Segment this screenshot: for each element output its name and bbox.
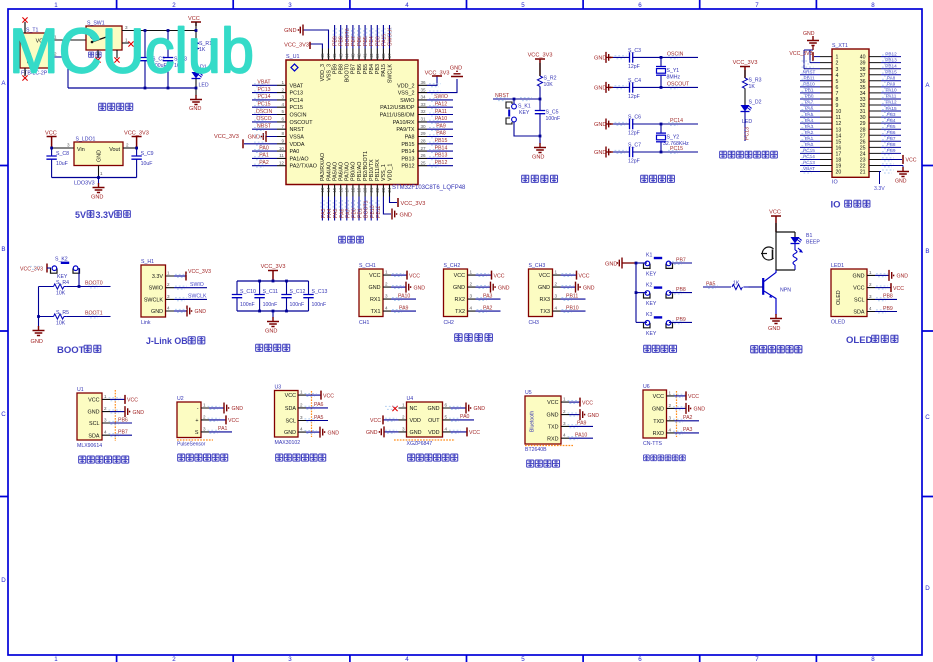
svg-text:VCC: VCC <box>579 273 590 279</box>
svg-text:PB9: PB9 <box>333 36 339 46</box>
svg-text:B: B <box>925 248 929 255</box>
capacitor S_C10 <box>232 281 256 311</box>
svg-text:S_C5: S_C5 <box>546 110 559 116</box>
svg-text:GND: GND <box>453 285 465 291</box>
right pin stubs <box>869 57 881 172</box>
svg-text:VDD_1: VDD_1 <box>387 164 393 181</box>
svg-text:28: 28 <box>421 139 427 144</box>
svg-text:PB7: PB7 <box>351 36 357 46</box>
left net labels <box>256 80 273 166</box>
svg-text:4: 4 <box>563 433 566 438</box>
svg-text:32: 32 <box>421 109 427 114</box>
svg-text:12: 12 <box>836 121 842 127</box>
svg-text:PB13: PB13 <box>435 153 448 159</box>
LED D1 <box>192 72 203 79</box>
svg-text:BEEP: BEEP <box>806 240 820 246</box>
svg-text:SWCLK: SWCLK <box>387 64 393 84</box>
svg-text:41: 41 <box>363 53 368 59</box>
wire from K2 to BOOT0 node <box>78 268 80 287</box>
svg-text:PA15: PA15 <box>381 64 387 77</box>
title 按键电路 <box>644 345 677 352</box>
svg-text:PA11: PA11 <box>886 94 897 99</box>
svg-text:VCC: VCC <box>88 398 99 404</box>
pin1 VCC_3V3 <box>174 275 186 277</box>
title 复位电路 <box>522 175 558 182</box>
svg-text:43: 43 <box>351 53 356 59</box>
svg-text:GND: GND <box>897 274 909 280</box>
svg-text:11: 11 <box>279 153 284 158</box>
svg-text:VCC: VCC <box>369 273 380 279</box>
wire T1 pin2 down to rail <box>50 57 68 88</box>
svg-text:GND: GND <box>594 122 606 128</box>
svg-text:VCC: VCC <box>409 273 420 279</box>
svg-text:4: 4 <box>405 656 409 662</box>
svg-text:NC: NC <box>410 406 418 412</box>
svg-text:GND: GND <box>594 86 606 92</box>
svg-text:10K: 10K <box>56 321 66 327</box>
row PC15 <box>594 143 698 165</box>
capacitor S_C13 <box>303 281 327 311</box>
svg-text:PulseSensor: PulseSensor <box>177 442 206 448</box>
svg-text:17: 17 <box>344 187 349 193</box>
capacitor S_C5 <box>535 111 545 114</box>
svg-text:15: 15 <box>332 187 337 193</box>
svg-text:GND: GND <box>428 406 440 412</box>
svg-text:B: B <box>1 246 5 253</box>
svg-text:GND: GND <box>133 410 145 416</box>
svg-text:-: - <box>197 406 199 412</box>
row PC14 <box>594 115 698 137</box>
svg-text:48: 48 <box>320 53 325 59</box>
connector S_CH3 <box>529 263 595 326</box>
svg-text:Bluetooth: Bluetooth <box>530 411 536 432</box>
connector S_CH2 <box>444 263 510 326</box>
svg-text:OSCIN: OSCIN <box>290 113 307 119</box>
no-ERC mark bottom of T1 <box>22 75 27 80</box>
svg-text:PA3: PA3 <box>683 427 693 433</box>
left pins <box>399 408 407 432</box>
VCC_3V3 at pin1 <box>812 52 814 61</box>
right wires <box>427 76 457 166</box>
svg-text:25: 25 <box>860 145 866 151</box>
svg-text:16: 16 <box>836 145 842 151</box>
svg-text:GND: GND <box>366 430 378 436</box>
svg-text:BT2640B: BT2640B <box>525 447 547 453</box>
svg-text:GND: GND <box>694 407 706 413</box>
pin2 VCC <box>383 419 399 421</box>
svg-text:S_C8: S_C8 <box>56 151 69 157</box>
svg-text:PA12: PA12 <box>885 100 897 105</box>
module U5 BT2640B <box>525 396 561 444</box>
svg-text:B1: B1 <box>806 233 812 239</box>
svg-text:7: 7 <box>755 656 759 662</box>
svg-text:VBAT: VBAT <box>290 83 304 89</box>
svg-text:KEY: KEY <box>519 110 530 116</box>
svg-text:PB12: PB12 <box>401 164 414 170</box>
svg-text:46: 46 <box>332 53 337 59</box>
NPN transistor Q1 <box>763 270 776 315</box>
svg-text:4: 4 <box>104 430 107 435</box>
svg-text:PA9: PA9 <box>436 123 446 129</box>
svg-text:KEY: KEY <box>646 331 657 337</box>
svg-text:PA2: PA2 <box>683 415 693 421</box>
pin3 PA1 <box>209 431 232 433</box>
switch S_SW1 <box>86 21 122 51</box>
svg-text:U2: U2 <box>177 396 184 402</box>
svg-text:K1: K1 <box>646 253 652 259</box>
title 血氧检测模块 <box>276 454 326 461</box>
connector S_XT1 <box>832 49 869 177</box>
svg-text:GND: GND <box>91 195 103 201</box>
svg-text:S_C12: S_C12 <box>290 289 306 295</box>
svg-text:SDA: SDA <box>88 433 99 439</box>
svg-text:PA1/AO: PA1/AO <box>290 156 309 162</box>
left vertical wire <box>38 287 40 317</box>
svg-text:4: 4 <box>445 426 448 431</box>
svg-text:12pF: 12pF <box>628 64 640 70</box>
svg-text:GND: GND <box>151 309 163 315</box>
orange marker <box>114 390 116 441</box>
svg-text:S_C10: S_C10 <box>240 289 256 295</box>
svg-text:2: 2 <box>172 656 176 662</box>
bottom rail <box>52 177 137 179</box>
svg-text:VCC: VCC <box>323 393 334 399</box>
svg-text:5: 5 <box>521 656 525 662</box>
VCC at pin23 <box>902 155 904 164</box>
svg-text:VDD_2: VDD_2 <box>397 83 414 89</box>
svg-text:GND: GND <box>532 155 544 161</box>
title 声光报警电路 <box>751 346 802 353</box>
svg-text:3: 3 <box>669 415 672 420</box>
row OSCIN <box>594 48 698 70</box>
svg-text:2: 2 <box>836 61 839 67</box>
svg-text:SWIO: SWIO <box>400 98 414 104</box>
LED S_D2 <box>741 105 752 112</box>
svg-text:SWCLK: SWCLK <box>388 27 394 46</box>
button K1 <box>636 262 647 264</box>
svg-text:PB1/AO: PB1/AO <box>357 162 363 181</box>
svg-text:1K: 1K <box>749 84 756 90</box>
svg-text:PB1: PB1 <box>805 88 814 93</box>
svg-text:PB5: PB5 <box>363 64 369 74</box>
svg-text:3.3V: 3.3V <box>152 274 163 280</box>
SW1 bottom stubs with x <box>98 50 117 58</box>
svg-text:PC13: PC13 <box>290 91 304 97</box>
svg-text:3: 3 <box>281 95 284 100</box>
pin3 SWCLK <box>174 298 207 300</box>
bottom net labels rotated red <box>321 200 382 218</box>
svg-text:31: 31 <box>860 109 866 115</box>
svg-text:PA5/AO: PA5/AO <box>332 162 338 181</box>
bottom bus <box>237 310 309 312</box>
pin1 VCC <box>569 401 580 403</box>
svg-text:100nF: 100nF <box>263 302 278 308</box>
svg-text:VDD: VDD <box>428 430 439 436</box>
svg-text:100nF: 100nF <box>312 302 327 308</box>
svg-text:VCC_3V3: VCC_3V3 <box>528 53 553 59</box>
svg-text:PC15: PC15 <box>670 146 683 152</box>
svg-text:U5: U5 <box>525 390 532 396</box>
svg-text:5: 5 <box>281 109 284 114</box>
pin1 GND <box>875 274 889 276</box>
svg-text:4: 4 <box>300 427 303 432</box>
svg-text:PC14: PC14 <box>290 98 304 104</box>
svg-text:VCC_3V3: VCC_3V3 <box>425 71 450 77</box>
svg-text:VSS_3: VSS_3 <box>326 64 332 81</box>
svg-text:1: 1 <box>104 394 107 399</box>
svg-text:PB11: PB11 <box>566 293 578 299</box>
svg-text:PA5: PA5 <box>333 208 339 218</box>
svg-text:D: D <box>925 585 930 592</box>
svg-text:S_R5: S_R5 <box>56 310 69 316</box>
svg-text:PA11/USB/DM: PA11/USB/DM <box>380 113 415 119</box>
svg-text:GND: GND <box>232 406 244 412</box>
svg-text:GND: GND <box>284 430 296 436</box>
svg-text:PC13: PC13 <box>745 127 751 140</box>
svg-text:8MHz: 8MHz <box>667 75 681 81</box>
svg-text:PB8: PB8 <box>676 287 686 293</box>
erc compile marks <box>30 28 894 440</box>
svg-text:SCL: SCL <box>854 298 865 304</box>
svg-text:SWIO: SWIO <box>434 94 448 100</box>
pin4 GND <box>174 310 187 312</box>
left wires <box>244 85 277 165</box>
svg-text:GND: GND <box>588 413 600 419</box>
top pin stubs <box>322 49 389 61</box>
svg-text:GND: GND <box>652 407 664 413</box>
title IO拓展口 <box>831 200 870 211</box>
ground <box>190 95 202 105</box>
svg-text:TXD: TXD <box>653 419 664 425</box>
svg-text:7: 7 <box>755 2 759 9</box>
svg-text:U4: U4 <box>407 396 414 402</box>
svg-text:OUT: OUT <box>428 418 440 424</box>
svg-text:VCC: VCC <box>769 210 781 216</box>
VCC_3V3 at VDD_1 <box>397 198 399 207</box>
svg-text:14: 14 <box>326 187 331 193</box>
svg-text:BOOT0: BOOT0 <box>345 64 351 82</box>
pin2 VCC <box>875 287 891 289</box>
svg-text:GND: GND <box>189 106 201 112</box>
svg-text:7: 7 <box>281 124 284 129</box>
pin2 GND <box>110 411 125 413</box>
orange marker <box>311 391 313 437</box>
svg-text:GND: GND <box>328 430 340 436</box>
pin4 SDA <box>875 311 897 313</box>
title 5V转3.3V电路 <box>75 210 130 220</box>
svg-text:40: 40 <box>369 53 374 59</box>
svg-text:PB7: PB7 <box>676 258 686 264</box>
pin3 PB6 <box>110 422 132 424</box>
svg-text:PA0: PA0 <box>460 414 470 420</box>
svg-text:34: 34 <box>421 95 427 100</box>
svg-text:25: 25 <box>421 160 427 165</box>
svg-text:3: 3 <box>300 415 303 420</box>
svg-text:Vin: Vin <box>77 147 85 153</box>
crystal S_Y1 <box>656 57 680 87</box>
svg-text:TX1: TX1 <box>371 309 381 315</box>
svg-text:1: 1 <box>669 390 672 395</box>
svg-text:VCC_3V3: VCC_3V3 <box>789 51 812 57</box>
svg-text:C: C <box>1 411 6 418</box>
svg-text:OLED: OLED <box>831 320 845 326</box>
svg-text:GND: GND <box>498 285 510 291</box>
svg-text:S: S <box>195 430 199 436</box>
mosfet Q2 <box>761 247 776 270</box>
svg-text:PA10: PA10 <box>435 116 447 122</box>
svg-text:14: 14 <box>836 133 842 139</box>
svg-text:PA9: PA9 <box>577 421 587 427</box>
connector S_CH1 <box>359 263 425 326</box>
svg-text:PA10: PA10 <box>575 433 587 439</box>
svg-text:RX3: RX3 <box>540 297 551 303</box>
svg-text:4: 4 <box>470 306 473 311</box>
ground <box>272 311 274 318</box>
svg-text:PA7/AO: PA7/AO <box>345 162 351 181</box>
GND at pins2-3 <box>807 36 819 46</box>
svg-text:1: 1 <box>385 270 388 275</box>
connector S_H1 <box>141 265 166 317</box>
svg-text:2: 2 <box>563 409 566 414</box>
BOOT1 row: resistor S_R5 <box>39 316 111 318</box>
svg-text:3: 3 <box>288 656 292 662</box>
svg-text:31: 31 <box>421 117 427 122</box>
svg-text:PA0: PA0 <box>259 145 269 151</box>
capacitor S_C2 <box>140 31 167 89</box>
title 红外测温模块 <box>79 456 129 463</box>
svg-text:12pF: 12pF <box>628 94 640 100</box>
svg-text:VCC: VCC <box>688 394 699 400</box>
svg-text:16: 16 <box>338 187 343 193</box>
svg-text:S_H1: S_H1 <box>141 259 154 265</box>
svg-text:GND: GND <box>97 150 103 162</box>
pin2 VCC <box>209 419 226 421</box>
svg-text:VCC: VCC <box>653 394 664 400</box>
crystal S_Y2 <box>656 124 689 152</box>
svg-text:23: 23 <box>860 158 866 164</box>
right pin names <box>380 83 415 169</box>
svg-text:PB15: PB15 <box>401 142 414 148</box>
svg-text:VCC: VCC <box>469 430 480 436</box>
svg-text:13: 13 <box>320 187 325 193</box>
right pins <box>443 408 451 432</box>
svg-text:OSCOUT: OSCOUT <box>290 120 314 126</box>
svg-text:10: 10 <box>836 109 842 115</box>
pin5 PA0 <box>451 419 475 421</box>
pin2 PA6 <box>306 407 328 409</box>
svg-text:44: 44 <box>344 53 349 59</box>
svg-text:GND: GND <box>768 326 780 332</box>
wire Vout to VCC_3V3 <box>123 147 137 149</box>
svg-text:S_CH3: S_CH3 <box>529 263 546 269</box>
ground <box>38 317 40 328</box>
regulator S_LDO1 <box>74 137 123 166</box>
svg-text:CH1: CH1 <box>359 320 369 326</box>
svg-text:VCC: VCC <box>370 418 381 424</box>
svg-text:KEY: KEY <box>646 272 657 278</box>
svg-text:PB7: PB7 <box>351 64 357 74</box>
svg-text:3: 3 <box>385 294 388 299</box>
svg-text:4: 4 <box>167 306 170 311</box>
svg-text:PA10: PA10 <box>885 88 897 93</box>
svg-text:SWIO: SWIO <box>190 282 204 288</box>
svg-text:8: 8 <box>281 131 284 136</box>
VCC_3V3 power at VDD_2 <box>432 75 442 77</box>
svg-text:VCC_3V3: VCC_3V3 <box>188 269 211 275</box>
title 滤波电路 <box>256 344 290 351</box>
svg-text:RX1: RX1 <box>370 297 381 303</box>
svg-text:NPN: NPN <box>780 288 791 294</box>
svg-text:MCUclub: MCUclub <box>9 17 254 87</box>
title BOOT电路 <box>57 345 101 356</box>
left pin names <box>290 83 317 169</box>
svg-text:S_C6: S_C6 <box>628 115 641 121</box>
svg-text:33: 33 <box>860 97 866 103</box>
svg-text:PA6: PA6 <box>314 402 324 408</box>
pin4 PA10 <box>569 437 593 439</box>
svg-text:3.3V: 3.3V <box>874 186 885 192</box>
svg-text:29: 29 <box>860 121 866 127</box>
svg-text:PA8: PA8 <box>436 131 446 137</box>
svg-text:2: 2 <box>385 282 388 287</box>
svg-text:2: 2 <box>281 87 284 92</box>
svg-text:PA3: PA3 <box>483 293 493 299</box>
svg-text:20: 20 <box>836 170 842 176</box>
svg-text:S_R4: S_R4 <box>56 280 69 286</box>
svg-text:4: 4 <box>669 427 672 432</box>
LED D3 <box>791 237 802 244</box>
row OSCOUT <box>594 78 698 100</box>
svg-text:PA2/TX/AO: PA2/TX/AO <box>290 164 317 170</box>
pin1 VCC <box>110 398 125 400</box>
svg-text:PB13: PB13 <box>885 57 897 62</box>
resistor S_R2 <box>537 76 542 86</box>
svg-text:PB6: PB6 <box>357 64 363 74</box>
svg-text:PA3/RX/AO: PA3/RX/AO <box>320 153 326 181</box>
svg-text:GND: GND <box>803 31 815 37</box>
svg-text:NRST: NRST <box>257 123 272 129</box>
svg-text:PC13: PC13 <box>258 87 271 93</box>
svg-text:VDDA: VDDA <box>290 142 305 148</box>
svg-text:PA5: PA5 <box>805 112 814 117</box>
svg-text:VSS_2: VSS_2 <box>398 91 415 97</box>
svg-text:PA3: PA3 <box>805 124 814 129</box>
svg-text:PB10/TX: PB10/TX <box>369 159 375 181</box>
svg-text:12pF: 12pF <box>628 159 640 165</box>
svg-text:PB9: PB9 <box>332 64 338 74</box>
pin1 GND <box>209 407 224 409</box>
pin2 GND <box>569 414 580 416</box>
svg-text:GND: GND <box>547 413 559 419</box>
svg-text:3: 3 <box>67 143 70 148</box>
svg-text:37: 37 <box>387 53 392 59</box>
svg-text:GND: GND <box>853 274 865 280</box>
svg-text:PA11: PA11 <box>435 109 447 115</box>
GND at VSS_1 <box>392 209 397 220</box>
svg-text:39: 39 <box>860 61 866 67</box>
svg-text:BOOT0: BOOT0 <box>85 281 103 287</box>
svg-text:PC14: PC14 <box>670 118 683 124</box>
svg-text:VCC_3V3: VCC_3V3 <box>284 42 309 48</box>
svg-text:39: 39 <box>375 53 380 59</box>
svg-text:U3: U3 <box>275 385 282 391</box>
svg-text:VCC: VCC <box>853 286 864 292</box>
开关 label <box>88 52 101 57</box>
svg-text:18: 18 <box>351 187 356 193</box>
svg-text:PA1: PA1 <box>805 136 814 141</box>
svg-text:PB3: PB3 <box>375 36 381 46</box>
svg-text:2: 2 <box>402 414 405 419</box>
